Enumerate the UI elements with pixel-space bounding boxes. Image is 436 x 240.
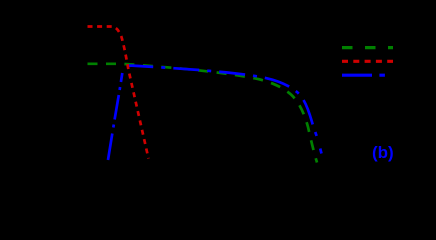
- blue curve steep rise: dot 2: [118, 87, 121, 90]
- blue curve: decline from knee with steep drop at right: [124, 66, 318, 141]
- blue curve steep rise: dash segment 2: [115, 95, 119, 120]
- red curve: horizontal at top then steep descent: [88, 27, 149, 159]
- svg-text:(b): (b): [372, 143, 394, 162]
- blue curve steep rise: dash segment 1: [108, 134, 112, 161]
- blue curve steep rise: dash segment 3: [121, 73, 122, 82]
- legend sample: green dashed line: [342, 46, 393, 49]
- legend sample: blue dash-dot line: [342, 74, 392, 77]
- blue curve steep rise: dot 1: [112, 125, 115, 128]
- green curve: horizontal segment then sloped decline with steep drop: [88, 64, 318, 163]
- blue curve: final dot at bottom of drop: [320, 149, 321, 154]
- legend sample: red dotted line: [342, 60, 393, 63]
